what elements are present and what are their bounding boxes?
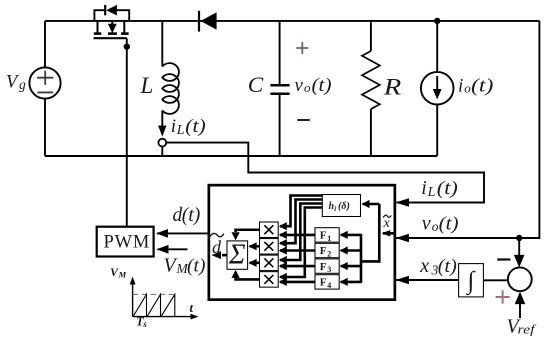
- controller box border: [209, 185, 395, 300]
- svg-text:o: o: [304, 80, 311, 95]
- svg-text:x: x: [382, 216, 390, 231]
- wire: gate lead down to PWM: [126, 38, 128, 226]
- wire: x3 line: [396, 279, 459, 281]
- svg-text:s: s: [142, 319, 147, 329]
- svg-text:F: F: [320, 230, 327, 242]
- multiplier X4 box: [260, 272, 279, 288]
- inductor current arrow iL: [161, 111, 163, 128]
- integrator box: [459, 264, 484, 297]
- arrowhead: into h block: [362, 200, 370, 208]
- wire: h output 3 to X3: [280, 204, 322, 261]
- mosfet Q1 left leg (drain): [97, 21, 99, 34]
- wire: d(t) line controller to PWM: [157, 232, 208, 234]
- wire: inductor top lead: [161, 21, 163, 67]
- arrowhead: into summer top: [514, 255, 525, 268]
- wire: bus to F1: [341, 234, 361, 237]
- arrowhead: F2 out into X2: [279, 246, 287, 254]
- wire: h output 1 to X1: [280, 196, 322, 227]
- wire: x bus to h block: [363, 203, 380, 206]
- wire: bus to F3: [341, 265, 361, 268]
- Vg minus sign: [37, 91, 53, 93]
- wire: VM(t) stub: [158, 248, 188, 250]
- wire: X1 out to Sigma top: [236, 230, 260, 232]
- sawtooth dashed peak line: [133, 293, 176, 295]
- arrowhead: vo stub into x bus: [381, 230, 390, 236]
- wire: resistor bottom lead: [370, 109, 372, 156]
- arrowhead: h4 into X4: [279, 273, 287, 281]
- multiplier X2 cross: [264, 242, 273, 251]
- multiplier X1 box: [260, 222, 279, 238]
- wire: F2 output to X2: [280, 249, 315, 252]
- current source io circle: [421, 72, 454, 105]
- multiplier X3 box: [260, 255, 279, 271]
- wire: left rail (Vg branch, upper): [44, 21, 46, 68]
- wire: bus to F2: [341, 249, 361, 252]
- wire: resistor top lead: [370, 21, 372, 51]
- svg-text:3: 3: [327, 265, 331, 274]
- block h_i(delta): [322, 195, 360, 217]
- wire: current source top lead: [436, 21, 438, 72]
- arrowhead: VM(t) into PWM: [157, 245, 169, 254]
- multiplier X3 cross: [264, 258, 273, 267]
- mosfet Q1 channel tick right: [121, 32, 129, 35]
- arrowhead: d(t) into PWM: [156, 229, 168, 238]
- arrowhead: X4 into Sigma bottom: [232, 270, 240, 278]
- svg-text:F: F: [320, 245, 327, 257]
- mosfet Q1 channel tick middle: [108, 32, 117, 35]
- svg-text:v: v: [295, 75, 304, 96]
- svg-text:(δ): (δ): [338, 201, 350, 212]
- capacitor minus sign: [297, 119, 309, 121]
- pwm box: [97, 227, 154, 257]
- svg-text:2: 2: [327, 249, 331, 258]
- wire: X4 out to Sigma bottom: [236, 278, 260, 280]
- wire: X3 out to Sigma: [250, 262, 260, 265]
- summer minus sign: [497, 258, 510, 260]
- svg-text:C: C: [248, 72, 264, 97]
- body diode loop wires: [94, 10, 105, 21]
- svg-text:v: v: [422, 213, 431, 235]
- svg-text:g: g: [19, 77, 26, 92]
- svg-text:i: i: [458, 75, 463, 96]
- summation block Sigma: [227, 241, 248, 269]
- wire: F4 output to X4: [280, 281, 315, 284]
- svg-text:L: L: [427, 185, 436, 200]
- arrowhead: Vref into summer bottom: [515, 292, 526, 305]
- arrowhead: into F3: [340, 262, 348, 270]
- mosfet Q1 channel tick left: [94, 32, 102, 35]
- inductor L coil: [162, 63, 179, 114]
- svg-text:t: t: [190, 301, 194, 315]
- multiplier X4 cross: [264, 275, 273, 284]
- svg-text:F: F: [320, 261, 327, 273]
- svg-text:M: M: [118, 269, 127, 279]
- arrowhead: F1 out into X1: [279, 231, 287, 239]
- node: iL measurement circle: [158, 139, 166, 147]
- svg-text:4: 4: [327, 281, 331, 290]
- wire: capacitor top lead: [279, 21, 281, 84]
- wire: summer to integrator: [484, 279, 508, 281]
- mosfet Q1 gate bar: [94, 37, 127, 39]
- capacitor C top plate: [270, 84, 289, 87]
- wire: X2 out to Sigma: [250, 245, 260, 248]
- wire: F1 output to X1: [280, 234, 315, 237]
- wire: x bus vertical: [361, 204, 379, 261]
- node: gate terminal dot: [124, 43, 130, 49]
- svg-text:(t): (t): [185, 116, 206, 137]
- svg-text:(t): (t): [312, 75, 332, 96]
- svg-text:(t): (t): [438, 256, 457, 277]
- node: top rail junction dot: [434, 18, 440, 24]
- wire: bottom rail (ground return): [45, 155, 437, 157]
- multiplier X1 cross: [264, 225, 273, 234]
- svg-text:(t): (t): [182, 205, 201, 226]
- body diode triangle: [106, 5, 117, 16]
- svg-text:Σ: Σ: [228, 240, 246, 271]
- svg-text:i: i: [421, 177, 427, 199]
- capacitor plus sign: [296, 47, 308, 49]
- wire: h output 2 to X2: [280, 200, 322, 244]
- wire: bus to F4: [341, 281, 361, 284]
- svg-text:d: d: [212, 237, 222, 257]
- wire: vo internal stub: [383, 232, 394, 235]
- block F4: [315, 275, 339, 289]
- sawtooth ramps: [133, 294, 147, 316]
- node: vo line junction dot: [516, 235, 522, 241]
- summer plus sign: [496, 296, 510, 298]
- arrowhead: h3 into X3: [279, 256, 287, 264]
- wire: left rail (Vg branch, lower): [44, 99, 46, 156]
- wire: F3 output to X3: [280, 265, 315, 268]
- svg-text:i: i: [171, 116, 176, 137]
- wire: current source bottom lead: [436, 105, 438, 157]
- svg-text:ref: ref: [518, 323, 537, 337]
- svg-text:F: F: [320, 277, 327, 289]
- wire: Vref lead: [519, 302, 521, 318]
- arrowhead: h2 into X2: [279, 239, 287, 247]
- body diode cathode bar: [104, 5, 106, 15]
- arrowhead: h1 into X1: [279, 222, 287, 230]
- Vg plus sign: [37, 77, 53, 79]
- svg-text:L: L: [176, 123, 185, 138]
- arrowhead: X1 into Sigma top: [232, 232, 240, 240]
- svg-text:x: x: [419, 255, 429, 277]
- wire: Sigma output: [222, 254, 227, 257]
- block F1: [315, 228, 339, 242]
- arrowhead: x3 into controller: [396, 276, 410, 285]
- wire: h output 4 to X4: [280, 208, 322, 278]
- summer circle: [508, 267, 532, 291]
- svg-text:i: i: [334, 205, 336, 213]
- resistor R zigzag: [362, 51, 380, 109]
- arrowhead: d tilde output: [212, 251, 222, 259]
- sawtooth v-axis: [132, 283, 134, 317]
- block F3: [315, 259, 339, 273]
- arrowhead: vo into controller: [396, 234, 410, 243]
- arrowhead: into F1: [340, 231, 348, 239]
- multiplier X2 box: [260, 239, 279, 255]
- wire: drop from vo line to summer: [518, 238, 520, 257]
- wire: iL sense path: [166, 143, 484, 203]
- arrowhead: into F2: [340, 246, 348, 254]
- current source io arrow: [436, 76, 438, 90]
- svg-text:PWM: PWM: [103, 233, 150, 253]
- svg-text:L: L: [140, 73, 154, 98]
- svg-text:R: R: [383, 75, 402, 100]
- svg-text:(t): (t): [471, 75, 494, 96]
- arrowhead: X3 into Sigma: [249, 259, 257, 267]
- diode D1 triangle: [201, 12, 217, 30]
- wire: capacitor bottom lead: [279, 95, 281, 156]
- svg-text:V: V: [6, 72, 20, 92]
- mosfet Q1 right leg (source): [123, 21, 125, 34]
- voltage source Vg circle: [29, 67, 60, 98]
- wire: F input bus vertical: [360, 234, 363, 283]
- wire: top rail (drain/output net): [45, 20, 539, 22]
- svg-text:1: 1: [327, 234, 331, 243]
- arrowhead: X2 into Sigma: [249, 242, 257, 250]
- diode D1 cathode bar: [198, 11, 200, 32]
- svg-text:(t): (t): [437, 178, 458, 199]
- wire: vo sense right rail: [396, 21, 539, 238]
- arrowhead: iL into controller: [396, 198, 410, 207]
- mosfet Q1 substrate arrow: [111, 21, 113, 25]
- svg-text:(t): (t): [439, 214, 459, 235]
- block F2: [315, 243, 339, 257]
- svg-text:∫: ∫: [465, 268, 475, 296]
- sawtooth h-axis: [133, 316, 193, 318]
- arrowhead: into F4: [340, 278, 348, 286]
- capacitor C bottom plate: [270, 93, 289, 96]
- wire: inductor bottom lead: [161, 147, 163, 157]
- arrowhead: F3 out into X3: [279, 262, 287, 270]
- svg-text:(t): (t): [187, 255, 206, 276]
- arrowhead: F4 out into X4: [279, 278, 287, 286]
